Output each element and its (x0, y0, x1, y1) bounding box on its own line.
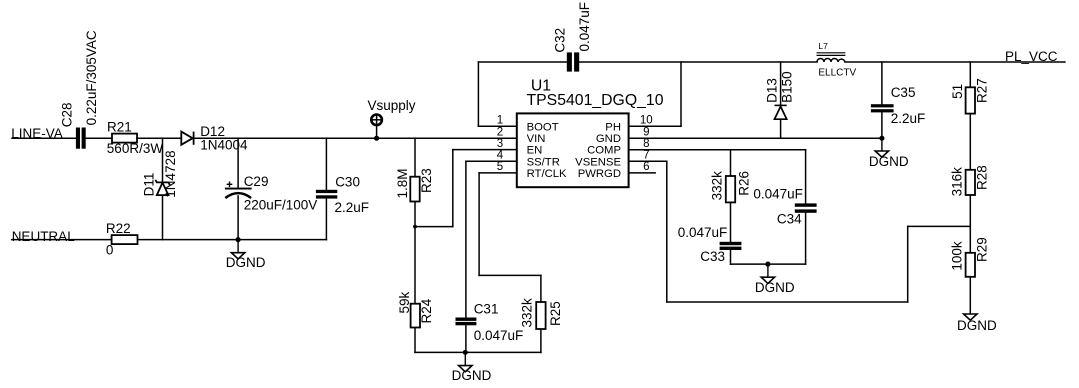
resistor R27 (950, 78, 990, 113)
capacitor C28 (59, 30, 99, 149)
resistor R25 (519, 298, 563, 329)
wire R26 vertical (730, 150, 732, 176)
wire Vsupply stem (376, 125, 378, 138)
wire COMP row (629, 149, 806, 151)
resistor R24 (397, 291, 434, 327)
svg-text:PWRGD: PWRGD (578, 168, 621, 180)
node LINE-VA wire (12, 137, 76, 139)
capacitor C29 (polarized) (225, 174, 317, 213)
wire C33-C34 bottom row (731, 263, 806, 265)
svg-text:DGND: DGND (869, 154, 909, 169)
svg-text:51: 51 (950, 84, 965, 99)
diode D13 (775, 105, 787, 120)
junction dot C31-bottom (463, 350, 468, 355)
wire SS/TR stub (466, 160, 517, 162)
wire EN horizontal at 226.6 (415, 226, 453, 228)
junction dot R23-EN (413, 225, 417, 229)
svg-text:1: 1 (497, 115, 503, 127)
svg-text:1.8M: 1.8M (395, 168, 410, 198)
ground DGND (under C29) (226, 240, 266, 271)
svg-text:DGND: DGND (452, 368, 492, 383)
resistor R21 (107, 119, 164, 156)
wire PH vertical (680, 62, 682, 126)
ground DGND (under C33/C34) (755, 264, 795, 295)
svg-text:EN: EN (527, 145, 543, 157)
svg-text:VSENSE: VSENSE (575, 156, 621, 168)
svg-text:VIN: VIN (527, 133, 546, 145)
svg-text:10: 10 (640, 115, 653, 127)
svg-text:7: 7 (643, 150, 649, 162)
svg-text:0.22uF/305VAC: 0.22uF/305VAC (84, 30, 99, 125)
svg-text:2.2uF: 2.2uF (335, 200, 370, 215)
wire GND row (629, 137, 882, 139)
svg-text:R23: R23 (419, 168, 434, 193)
svg-text:R25: R25 (548, 301, 563, 326)
svg-text:R26: R26 (736, 171, 751, 196)
svg-text:D11: D11 (142, 173, 157, 197)
wire top rail left of C32 (478, 61, 566, 63)
svg-text:D13: D13 (765, 78, 780, 103)
svg-text:316k: 316k (950, 167, 965, 197)
zener diode D11 (155, 180, 169, 195)
svg-text:TPS5401_DGQ_10: TPS5401_DGQ_10 (527, 92, 664, 109)
svg-text:C33: C33 (700, 249, 725, 264)
capacitor C35 (871, 85, 925, 126)
svg-text:R27: R27 (975, 78, 990, 103)
junction dot C33/C34 bottom (765, 262, 770, 267)
svg-text:R28: R28 (975, 165, 990, 190)
svg-text:C34: C34 (777, 212, 802, 227)
svg-text:2: 2 (497, 127, 503, 139)
svg-text:2.2uF: 2.2uF (891, 111, 926, 126)
wire RT/CLK vertical (478, 173, 480, 276)
svg-text:L7: L7 (818, 41, 828, 51)
wire R21 to D12 (137, 137, 181, 139)
svg-text:ELLCTV: ELLCTV (818, 67, 856, 78)
wire RT/CLK horizontal (479, 274, 541, 276)
wire R27 chain vertical (969, 62, 971, 87)
svg-text:R22: R22 (106, 221, 131, 236)
resistor R29 (950, 237, 990, 277)
IC U1 (497, 78, 664, 188)
svg-text:C32: C32 (552, 28, 567, 53)
resistor R26 (709, 171, 751, 203)
wire top rail C32 to L7 (579, 61, 817, 63)
wire EN vertical (452, 150, 454, 227)
svg-text:LINE-VA: LINE-VA (11, 126, 63, 141)
svg-text:COMP: COMP (587, 145, 621, 157)
ground DGND (under C35) (869, 138, 909, 169)
wire feedback vertical (907, 226, 909, 302)
svg-text:100k: 100k (950, 241, 965, 271)
wire VSENSE long horizontal (667, 301, 908, 303)
svg-text:1N4728: 1N4728 (163, 150, 178, 197)
svg-text:6: 6 (643, 161, 649, 173)
wire bottom row R24-R25 (415, 351, 541, 353)
wire C35 vertical (881, 62, 883, 104)
svg-text:0.047uF: 0.047uF (753, 187, 803, 202)
wire C34 vertical (805, 150, 807, 204)
wire VSENSE stub (629, 160, 667, 162)
svg-text:DGND: DGND (226, 255, 266, 270)
junction dot C35-GND row (879, 136, 884, 141)
svg-text:9: 9 (643, 127, 649, 139)
junction dot C29-NEUTRAL (236, 237, 241, 242)
svg-text:BOOT: BOOT (527, 121, 559, 133)
capacitor C33 (678, 225, 742, 264)
svg-text:C28: C28 (59, 102, 74, 127)
wire C29 vertical (237, 138, 239, 188)
svg-text:59k: 59k (397, 291, 412, 313)
svg-text:8: 8 (643, 138, 649, 150)
resistor R28 (950, 165, 990, 196)
svg-text:3: 3 (497, 138, 503, 150)
svg-text:560R/3W: 560R/3W (107, 141, 164, 156)
supply symbol Vsupply (368, 98, 416, 125)
svg-text:Vsupply: Vsupply (368, 98, 416, 113)
svg-text:0.047uF: 0.047uF (474, 328, 524, 343)
wire C30 vertical (325, 138, 327, 190)
wire R25 top vertical (540, 275, 542, 302)
svg-text:DGND: DGND (957, 318, 997, 333)
wire PWRGD stub (629, 172, 656, 174)
wire PH stub (629, 125, 681, 127)
svg-text:C31: C31 (474, 301, 499, 316)
capacitor C32 (552, 2, 592, 72)
ground DGND (under C31) (452, 352, 492, 383)
wire BOOT stub (478, 125, 516, 127)
svg-text:R24: R24 (419, 298, 434, 323)
wire BOOT loop vertical (477, 62, 479, 126)
wire R25 bottom (540, 329, 542, 352)
node NEUTRAL wire (12, 239, 112, 241)
resistor R23 (395, 168, 434, 201)
capacitor C34 (753, 187, 816, 227)
svg-text:PL_VCC: PL_VCC (1005, 49, 1058, 64)
svg-text:C35: C35 (891, 85, 916, 100)
svg-text:332k: 332k (519, 298, 534, 328)
resistor R22 (106, 221, 138, 257)
capacitor C31 (456, 301, 524, 342)
svg-text:R29: R29 (975, 237, 990, 262)
inductor L7 (817, 53, 846, 62)
svg-text:SS/TR: SS/TR (527, 156, 560, 168)
svg-text:DGND: DGND (755, 280, 795, 295)
wire C31 vertical (465, 161, 467, 317)
wire feedback horizontal (908, 225, 971, 227)
svg-text:4: 4 (497, 150, 504, 162)
svg-text:C29: C29 (244, 174, 269, 189)
wire R23 chain vertical (414, 138, 416, 177)
svg-text:332k: 332k (709, 171, 724, 201)
wire D11 vertical (162, 138, 164, 182)
svg-text:NEUTRAL: NEUTRAL (12, 229, 76, 244)
wire D12 to U1 VIN (194, 137, 516, 139)
svg-text:C30: C30 (335, 174, 360, 189)
svg-text:R21: R21 (107, 119, 132, 134)
svg-text:0.047uF: 0.047uF (678, 225, 728, 240)
svg-text:220uF/100V: 220uF/100V (244, 198, 318, 213)
svg-text:PH: PH (605, 121, 621, 133)
capacitor C30 (316, 174, 369, 215)
junction dot Vsupply-rail (374, 136, 379, 141)
wire top rail L7 to PL_VCC (845, 61, 1065, 63)
wire D13 vertical (780, 62, 782, 105)
svg-text:1N4004: 1N4004 (200, 137, 248, 152)
svg-text:RT/CLK: RT/CLK (527, 168, 567, 180)
diode D12 (181, 132, 193, 145)
wire VSENSE vertical (666, 161, 668, 302)
wire R22 to C30 bottom (138, 239, 327, 241)
svg-text:GND: GND (596, 133, 621, 145)
wire RT/CLK stub (479, 172, 517, 174)
svg-text:B150: B150 (779, 71, 794, 103)
svg-text:0: 0 (106, 243, 114, 258)
wire EN stub (453, 149, 517, 151)
ground DGND (under R29) (957, 314, 997, 333)
svg-text:0.047uF: 0.047uF (577, 2, 592, 52)
svg-text:5: 5 (497, 161, 503, 173)
wire C28 to R21 (86, 137, 112, 139)
